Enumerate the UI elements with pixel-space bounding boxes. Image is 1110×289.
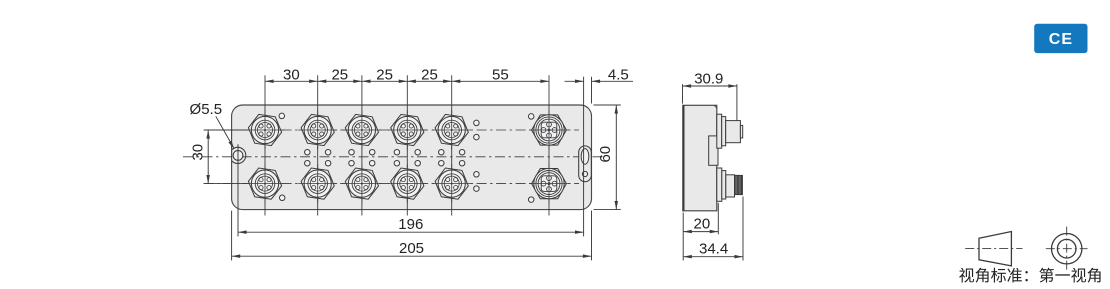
connector X3 — [342, 111, 381, 150]
dimension 25 top — [407, 80, 451, 82]
dimension 25 top — [362, 80, 407, 82]
svg-text:30: 30 — [283, 67, 300, 84]
svg-text:Ø5.5: Ø5.5 — [190, 101, 223, 118]
right slot small hole — [582, 171, 587, 176]
svg-text:60: 60 — [597, 146, 614, 163]
mounting hole boss left — [232, 147, 246, 163]
svg-text:30.9: 30.9 — [694, 70, 723, 87]
connector X6 — [529, 110, 569, 150]
CE badge — [1034, 24, 1087, 53]
svg-text:CE: CE — [1049, 31, 1073, 48]
svg-text:25: 25 — [331, 67, 348, 84]
right keyhole slot boss — [579, 146, 592, 182]
side connector bottom (male M12 threaded) — [717, 168, 743, 201]
connector X1 — [246, 111, 285, 150]
side view body — [683, 105, 717, 211]
side top chamfer — [714, 105, 717, 108]
dimension 25 top — [318, 80, 362, 82]
svg-text:20: 20 — [694, 216, 711, 233]
right slot oval — [581, 149, 589, 165]
dimension 205 — [231, 211, 233, 261]
dimension 60 right vertical — [594, 104, 621, 106]
connector X7 — [246, 164, 285, 203]
dimension 30 top — [265, 80, 318, 82]
svg-text:25: 25 — [376, 67, 393, 84]
svg-text:205: 205 — [399, 240, 424, 257]
connector X12 — [529, 164, 569, 204]
first angle symbol: end view circles — [1052, 234, 1082, 264]
middle horizontal centerline — [183, 156, 604, 158]
dimension 20 — [717, 203, 719, 234]
connector X10 — [388, 164, 427, 203]
connector X8 — [298, 164, 337, 203]
column centerlines — [264, 75, 266, 215]
svg-text:196: 196 — [398, 216, 423, 233]
side connector top (female M12) — [717, 114, 743, 148]
mounting hole Ø5.5 — [233, 151, 243, 161]
row 1 centerline — [204, 129, 579, 131]
connector X5 — [432, 111, 471, 150]
connector X4 — [388, 111, 427, 150]
dimension 55 top — [452, 80, 549, 82]
indicator holes — [279, 113, 534, 202]
dimension 196 — [237, 144, 239, 236]
dimension 34.4 — [682, 213, 684, 261]
svg-text:25: 25 — [421, 67, 438, 84]
side mid panel — [709, 136, 718, 165]
connector X2 — [298, 111, 337, 150]
connector X11 — [432, 164, 471, 203]
dimension 4.5 top right — [583, 77, 585, 237]
svg-text:4.5: 4.5 — [608, 67, 629, 84]
dimension 30.9 — [682, 84, 684, 103]
svg-text:34.4: 34.4 — [699, 241, 728, 258]
front view plate — [232, 105, 592, 210]
first angle symbol: frustum side view — [979, 232, 1011, 266]
caption: view angle standard, first angle — [959, 268, 1100, 283]
svg-text:30: 30 — [190, 144, 207, 161]
dimension 30 left vertical — [204, 129, 247, 131]
connector X9 — [342, 164, 381, 203]
svg-text:55: 55 — [492, 67, 509, 84]
row 2 centerline — [204, 183, 579, 185]
